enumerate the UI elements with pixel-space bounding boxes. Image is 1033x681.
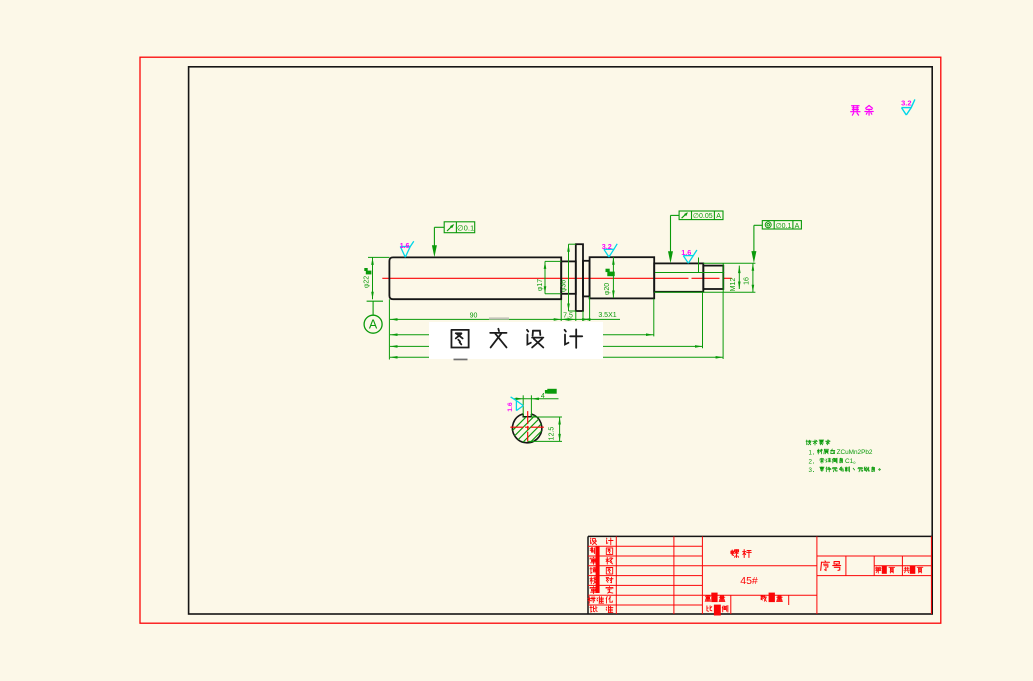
title block signer labels [590, 538, 596, 545]
leader for concentricity frame [754, 224, 762, 226]
svg-text:3．: 3． [809, 467, 819, 474]
svg-text:C1。: C1。 [845, 458, 860, 465]
leader for runout frame 0.05 [671, 214, 680, 216]
svg-text:16: 16 [743, 277, 750, 285]
dimension phi20 [612, 257, 614, 298]
runout tolerance frame 0.1 on phi22 [444, 222, 475, 233]
svg-text:φ20: φ20 [604, 283, 611, 295]
runout tolerance frame 0.05 A on phi16 [679, 211, 723, 220]
technical requirements notes [806, 440, 830, 445]
svg-text:12.5: 12.5 [548, 427, 555, 441]
inner black border frame [189, 67, 933, 614]
weight label with red block [705, 596, 711, 602]
red artifact bar in signature column [596, 546, 600, 593]
svg-text:2．: 2． [809, 458, 819, 465]
concentricity tolerance frame 0.1 A on M12 [762, 221, 801, 229]
svg-text:3.2: 3.2 [602, 242, 612, 251]
shaft segment phi16 [654, 263, 703, 291]
shaft segment phi20 body [590, 257, 655, 298]
surface finish 1.6 on phi16 [683, 255, 693, 257]
svg-text:A: A [369, 318, 378, 332]
title block row lines [588, 545, 702, 547]
dimension row 90 / 7.5 / 3.5x1 [390, 318, 620, 320]
shaft threaded end M12 [703, 266, 723, 289]
serial number label [821, 561, 841, 570]
part name luogan [731, 550, 751, 558]
svg-text:1.6: 1.6 [400, 243, 410, 250]
dimension phi36 [568, 244, 570, 311]
svg-text:∅0.1: ∅0.1 [776, 223, 792, 230]
section crosshair centerlines [510, 426, 544, 428]
keyway slot [523, 414, 531, 417]
extension lines below shaft [388, 299, 390, 359]
shaft segment phi22 body [389, 257, 561, 299]
dimension phi17 [544, 261, 546, 293]
leader for runout frame 0.1 [434, 226, 444, 228]
dimension 16 [752, 263, 754, 292]
svg-text:1.6: 1.6 [507, 402, 514, 412]
svg-text:M12: M12 [730, 278, 737, 292]
white watermark box [429, 322, 603, 359]
page number cells [876, 567, 881, 573]
shaft relief groove 3.5x1 [583, 261, 590, 297]
svg-text:φ36: φ36 [561, 280, 568, 292]
section circle with keyway [512, 414, 541, 443]
svg-text:1.6: 1.6 [681, 248, 691, 257]
datum tick under phi22 [367, 300, 383, 302]
svg-text:∅0.1: ∅0.1 [457, 224, 474, 233]
dimension row length to phi16 [390, 334, 654, 336]
svg-text:3.5X1: 3.5X1 [598, 312, 616, 319]
extension lines right end [703, 262, 755, 264]
svg-text:A: A [716, 213, 721, 220]
svg-text:4: 4 [541, 393, 545, 400]
surface finish 3.2 on phi20 [604, 248, 614, 250]
dimension row length to M12 start [390, 345, 703, 347]
chamfer tick on phi16 [698, 258, 700, 273]
dimension phi22 with leader [368, 256, 389, 258]
shaft segment phi17 neck [561, 261, 576, 293]
surface finish 1.6 on keyway side [515, 401, 517, 411]
svg-text:∅0.05: ∅0.05 [693, 213, 713, 220]
svg-text:90: 90 [470, 313, 478, 320]
datum symbol A [372, 301, 374, 315]
dimension row overall length [390, 356, 723, 358]
svg-text:φ22: φ22 [364, 276, 371, 288]
red centerline of shaft [382, 277, 688, 279]
shaft flange phi36 [576, 244, 583, 311]
surface finish 1.6 on phi22 [400, 246, 410, 248]
svg-text:φ17: φ17 [537, 279, 544, 291]
svg-text:ZCuMn2Pb2: ZCuMn2Pb2 [837, 449, 873, 456]
outer red border frame [140, 57, 941, 623]
scale label with red block [707, 606, 712, 611]
title block column lines [615, 536, 617, 614]
dimension 4 keyway width [522, 395, 524, 416]
remainder roughness note top right [851, 105, 873, 115]
svg-text:A: A [795, 223, 800, 230]
svg-text:3.2: 3.2 [901, 98, 911, 107]
watermark remnants [454, 359, 468, 361]
quantity label with red block [761, 595, 767, 601]
watermark text tu wen she ji [451, 330, 468, 348]
svg-text:45#: 45# [740, 575, 758, 587]
svg-text:1．: 1． [809, 449, 819, 456]
dimension M12 [738, 266, 740, 289]
title block outer black lines [588, 535, 932, 537]
svg-text:7.5: 7.5 [563, 312, 573, 319]
thread minor diameter line [655, 272, 724, 274]
dimension 12.5 keyway depth [531, 416, 562, 418]
